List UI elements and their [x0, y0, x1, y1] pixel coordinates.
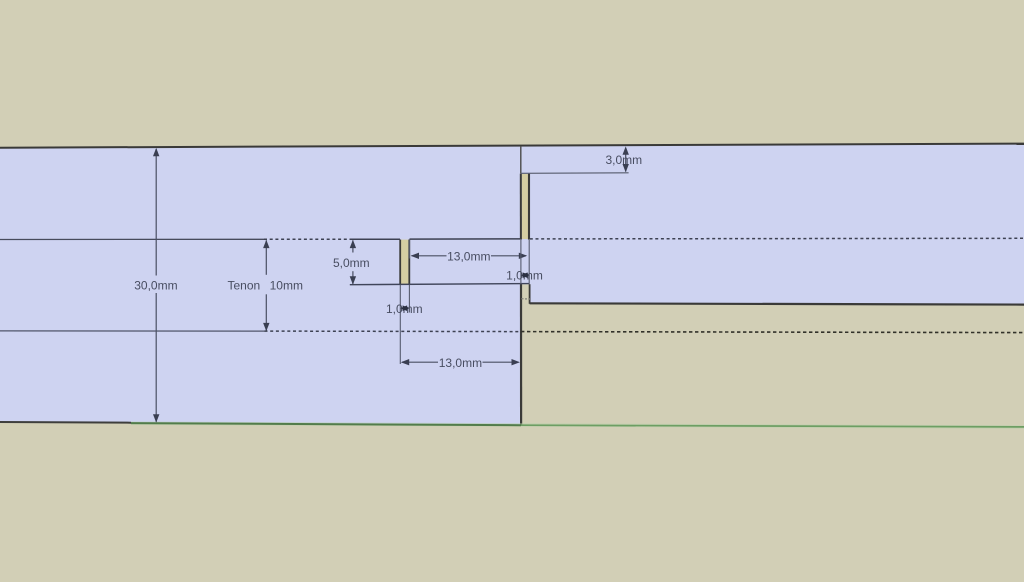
tenon bottom line: hidden dashed over ground — [521, 332, 1024, 333]
5,0mm bottom arrow — [350, 276, 356, 284]
dimension 13,0mm (lower): line segments — [402, 361, 438, 363]
kerf left extension line — [520, 240, 522, 284]
left board bottom edge (gray part, left of axis origin) — [0, 421, 131, 424]
central slot right edge — [408, 240, 410, 285]
green axis line (dark over board edge) — [131, 423, 521, 425]
tenon top line: solid segment right of slot — [410, 238, 521, 240]
Tenon 10mm top arrow — [263, 240, 269, 248]
30,0mm bottom arrow — [153, 414, 159, 422]
central slot left edge — [399, 240, 401, 285]
svg-text:3,0mm: 3,0mm — [605, 153, 642, 167]
right board left edge below notch — [529, 284, 531, 304]
dimension 5,0mm: vertical shafts — [352, 240, 354, 252]
svg-text:10mm: 10mm — [270, 278, 303, 292]
svg-text:5,0mm: 5,0mm — [333, 256, 370, 270]
hidden notch dots — [522, 298, 530, 300]
central saw kerf slot in left board (tan fill) — [401, 240, 409, 285]
dimension 30,0mm: vertical line with text gap — [155, 149, 157, 276]
dimension 3,0mm: vertical shaft — [625, 148, 627, 172]
13,0mm upper extension line right / 1,0mm kerf extension — [528, 240, 530, 284]
joint line where boards touch (thin) — [520, 146, 522, 173]
3,0mm extension line (step in right board) — [521, 172, 629, 175]
tenon top line: hidden dashed in right board — [530, 237, 1024, 240]
left board right edge along kerf (thick) — [520, 174, 522, 240]
tenon bottom line: solid left segment — [0, 330, 265, 332]
green axis line (bright over ground) — [521, 425, 1024, 427]
top edge of both boards — [0, 144, 1024, 148]
3,0mm top arrow — [623, 146, 629, 154]
3,0mm bottom arrow — [623, 164, 629, 172]
left board (rail) face — [0, 146, 521, 426]
dimension 1,0mm (central slot): extension lines below slot — [399, 285, 401, 364]
left board right edge below tenon overlap (thick silhouette) — [520, 284, 522, 426]
1,0mm central outward arrows — [400, 305, 407, 311]
kerf bottom extension line y=284 — [350, 284, 530, 285]
right board bottom edge — [530, 303, 1024, 304]
13,0mm lower right arrow — [512, 359, 520, 365]
5,0mm top arrow — [350, 240, 356, 248]
svg-text:30,0mm: 30,0mm — [134, 278, 177, 292]
13,0mm upper extension line left — [408, 240, 410, 259]
right board face with notched lower-left corner — [521, 144, 1024, 304]
green axis halo — [131, 423, 1024, 427]
13,0mm lower left arrow — [401, 359, 409, 365]
dimension 1,0mm (kerf): outward arrows — [521, 272, 528, 278]
tenon bottom line: hidden dashed across left board — [265, 330, 521, 333]
tenon top line: solid extension segment — [351, 238, 400, 240]
dimension 13,0mm (upper): line segments — [412, 255, 447, 257]
saw kerf slot between boards (tan fill) — [522, 174, 529, 239]
svg-text:Tenon: Tenon — [227, 278, 260, 292]
tenon top line: solid left segment — [0, 238, 264, 240]
tenon top line: hidden dashed middle segment — [264, 238, 351, 240]
Tenon 10mm bottom arrow — [263, 323, 269, 331]
30,0mm top arrow — [153, 148, 159, 156]
svg-text:13,0mm: 13,0mm — [447, 250, 490, 264]
kerf right edge (right board left edge at slot) — [528, 174, 530, 240]
13,0mm upper left arrow — [411, 253, 419, 259]
svg-text:13,0mm: 13,0mm — [439, 356, 482, 370]
dimension Tenon 10mm: vertical line with text gap — [265, 240, 267, 274]
13,0mm upper right arrow — [519, 253, 527, 259]
